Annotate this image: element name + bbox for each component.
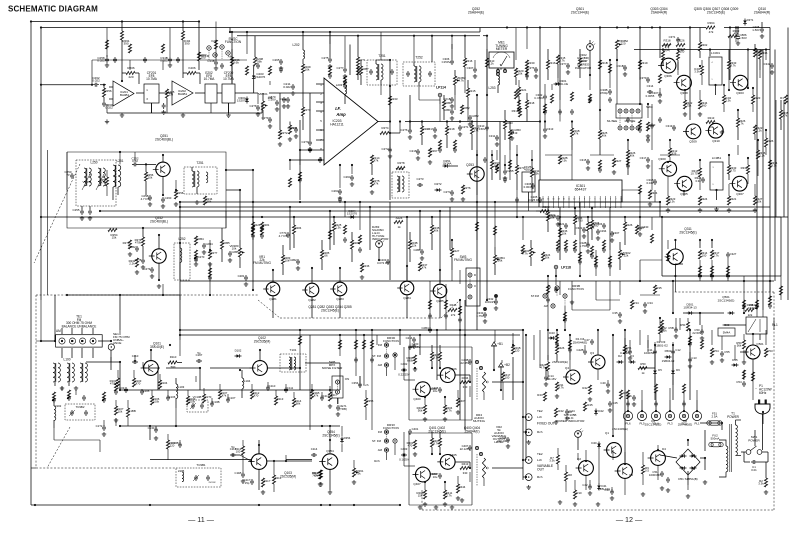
svg-text:220 10kV: 220 10kV xyxy=(497,439,509,443)
svg-text:ON: ON xyxy=(345,377,349,381)
svg-text:2SC1B2: 2SC1B2 xyxy=(208,482,215,484)
svg-text:100k: 100k xyxy=(153,400,160,404)
svg-text:455C1: 455C1 xyxy=(524,168,533,172)
capacitor C106 xyxy=(166,395,170,401)
svg-text:C2?1: C2?1 xyxy=(461,125,468,129)
wire xyxy=(389,202,391,280)
svg-text:Q281: Q281 xyxy=(269,297,277,301)
svg-text:Q310: Q310 xyxy=(712,139,720,143)
capacitor C504 xyxy=(742,381,746,387)
svg-text:15k: 15k xyxy=(418,494,423,498)
svg-text:4.7k: 4.7k xyxy=(730,64,736,68)
svg-text:POWER INDICATOR: POWER INDICATOR xyxy=(556,419,586,423)
svg-text:C44: C44 xyxy=(569,409,575,413)
resistor R117 xyxy=(166,440,169,449)
switch DR3B xyxy=(555,286,559,290)
svg-text:FUNCTION: FUNCTION xyxy=(383,339,399,343)
svg-text:POWER: POWER xyxy=(727,415,740,419)
svg-text:1000/35V: 1000/35V xyxy=(649,473,661,477)
svg-text:PL2: PL2 xyxy=(681,422,686,426)
svg-text:47k: 47k xyxy=(374,182,379,186)
svg-text:50k: 50k xyxy=(545,256,550,260)
resistor R291 xyxy=(430,225,433,234)
svg-text:MUTING: MUTING xyxy=(473,419,486,423)
diode D204 xyxy=(245,99,249,102)
svg-text:FUNCTION: FUNCTION xyxy=(383,426,399,430)
svg-text:C10B: C10B xyxy=(171,441,178,445)
wire xyxy=(40,28,42,301)
capacitor C316 xyxy=(534,67,538,73)
capacitor C108 xyxy=(210,401,214,407)
svg-text:22k: 22k xyxy=(624,254,629,258)
resistor R105 xyxy=(116,378,119,387)
capacitor C51 xyxy=(660,471,664,477)
svg-text:D4: D4 xyxy=(662,447,666,451)
svg-text:R2B7: R2B7 xyxy=(361,67,369,71)
resistor R421 xyxy=(555,345,558,354)
resistor R7 xyxy=(556,455,559,464)
resistor R220 xyxy=(514,68,517,77)
resistor R10 xyxy=(573,490,576,499)
coil L202 xyxy=(303,50,305,59)
capacitor C286 xyxy=(420,249,424,255)
svg-text:C110: C110 xyxy=(269,384,276,388)
capacitor C423 xyxy=(608,401,612,407)
svg-text:S1B01-02: S1B01-02 xyxy=(654,344,668,348)
capacitor C260b xyxy=(194,255,198,261)
resistor R501 xyxy=(742,340,745,349)
svg-text:1: 1 xyxy=(712,79,713,81)
resistor R350 xyxy=(768,160,771,169)
svg-text:0.047: 0.047 xyxy=(646,181,654,185)
svg-text:470: 470 xyxy=(408,444,413,448)
capacitor C222 xyxy=(503,169,507,175)
svg-text:15k: 15k xyxy=(112,236,117,240)
wire xyxy=(105,40,108,49)
capacitor C343 xyxy=(701,177,705,183)
svg-text:Q400: Q400 xyxy=(413,397,421,401)
wire xyxy=(67,152,226,228)
svg-text:INDICATOR: INDICATOR xyxy=(372,237,389,241)
wire xyxy=(98,340,111,342)
svg-text:2SC1345(E): 2SC1345(E) xyxy=(679,231,696,235)
transistor Q400 xyxy=(416,382,431,397)
capacitor C402 xyxy=(401,368,407,372)
svg-text:LP114: LP114 xyxy=(436,86,446,90)
resistor R503 xyxy=(658,325,661,334)
resistor R108 xyxy=(158,380,161,389)
resistor R417 xyxy=(511,345,514,354)
resistor R342 xyxy=(706,120,715,123)
svg-text:1S2076: 1S2076 xyxy=(237,99,247,103)
wire xyxy=(752,359,754,380)
wire xyxy=(559,281,561,295)
wire xyxy=(198,22,200,61)
capacitor C219 xyxy=(416,149,420,155)
IF amplifier IC203 xyxy=(324,78,378,165)
darlington D4b xyxy=(651,451,666,466)
svg-text:R226: R226 xyxy=(677,39,684,43)
svg-text:14: 14 xyxy=(552,199,554,201)
svg-text:4.7k: 4.7k xyxy=(558,386,564,390)
resistor R404 xyxy=(443,405,446,414)
svg-text:Q307: Q307 xyxy=(736,192,744,196)
wire xyxy=(230,31,480,33)
svg-text:C10B: C10B xyxy=(212,400,219,404)
svg-text:RDL.I/E: RDL.I/E xyxy=(558,82,568,86)
resistor R51 xyxy=(623,345,626,354)
svg-text:R426: R426 xyxy=(558,346,565,350)
svg-text:1000/50V: 1000/50V xyxy=(644,351,656,355)
svg-text:75k: 75k xyxy=(687,104,692,108)
svg-text:L104: L104 xyxy=(244,379,251,383)
LED D283 xyxy=(376,241,383,248)
resistor R364 xyxy=(706,26,715,29)
svg-text:500mA: 500mA xyxy=(711,437,720,441)
resistor R261 xyxy=(120,31,123,40)
capacitor C424 xyxy=(632,395,636,401)
svg-text:C294: C294 xyxy=(600,229,607,233)
ground xyxy=(418,505,422,509)
svg-text:Lch: Lch xyxy=(537,458,542,462)
capacitor C118 xyxy=(241,472,245,478)
svg-text:10: 10 xyxy=(573,199,575,201)
svg-text:PL1: PL1 xyxy=(694,422,699,426)
svg-text:R40?: R40? xyxy=(459,399,466,403)
resistor R233 xyxy=(278,130,281,139)
svg-text:R54: R54 xyxy=(713,349,719,353)
resistor R345 xyxy=(764,138,767,147)
resistor R230 xyxy=(461,185,464,194)
svg-text:R2B5: R2B5 xyxy=(222,241,230,245)
wire xyxy=(405,121,540,123)
resistor R256b xyxy=(128,240,131,249)
svg-text:3.3k: 3.3k xyxy=(549,459,555,463)
resistor R354 xyxy=(727,196,730,205)
svg-text:R35: R35 xyxy=(656,286,662,290)
resistor R403 xyxy=(423,405,426,414)
svg-text:C313: C313 xyxy=(547,127,554,131)
capacitor C282 xyxy=(296,259,300,265)
svg-text:C214: C214 xyxy=(406,336,413,340)
svg-text:Q308: Q308 xyxy=(680,91,688,95)
resistor R332 xyxy=(700,66,703,75)
potentiometer VR280 xyxy=(238,248,241,257)
capacitor C230 xyxy=(268,117,272,123)
svg-text:AM: AM xyxy=(378,448,383,452)
resistor R288 xyxy=(360,263,363,272)
svg-text:5: 5 xyxy=(600,199,601,201)
capacitor C107 xyxy=(196,359,202,363)
ground xyxy=(195,200,199,204)
transistor Q306 xyxy=(661,58,676,73)
resistor R407 xyxy=(430,438,433,447)
svg-text:L252: L252 xyxy=(179,237,186,241)
svg-text:C2B6: C2B6 xyxy=(413,248,421,252)
svg-text:10k: 10k xyxy=(518,72,523,76)
LED D8 xyxy=(575,431,582,438)
capacitor C11a xyxy=(653,349,657,355)
svg-text:L203: L203 xyxy=(336,83,343,87)
resistor R232 xyxy=(356,57,359,66)
svg-text:C54: C54 xyxy=(736,380,742,384)
capacitor C344 xyxy=(676,37,680,43)
svg-text:D40: D40 xyxy=(591,441,597,445)
svg-text:C2?3: C2?3 xyxy=(416,177,423,181)
switch SW2C xyxy=(207,46,211,50)
svg-text:R302: R302 xyxy=(701,43,708,47)
svg-text:100-16V: 100-16V xyxy=(546,377,557,381)
svg-text:Rch: Rch xyxy=(374,459,380,463)
capacitor C309 xyxy=(586,159,590,165)
capacitor C266 xyxy=(168,57,172,63)
node LP118 xyxy=(554,265,558,269)
svg-text:R267: R267 xyxy=(430,149,437,153)
capacitor C886 xyxy=(736,35,740,41)
svg-text:C263: C263 xyxy=(331,189,338,193)
svg-text:ST.FM: ST.FM xyxy=(201,54,210,58)
resistor R349 xyxy=(756,150,759,159)
potentiometer VR284 xyxy=(493,255,496,264)
svg-text:0.022: 0.022 xyxy=(105,106,113,110)
resistor R295 xyxy=(586,222,589,231)
svg-text:9: 9 xyxy=(713,184,714,186)
resistor R109 xyxy=(186,396,189,405)
capacitor C408b xyxy=(506,437,510,443)
svg-text:C105: C105 xyxy=(143,389,150,393)
svg-text:10.75V: 10.75V xyxy=(690,172,699,176)
svg-text:1S2076: 1S2076 xyxy=(347,211,357,215)
svg-text:Q3: Q3 xyxy=(590,351,594,355)
svg-text:0.022: 0.022 xyxy=(92,79,100,83)
svg-text:0.025 DS: 0.025 DS xyxy=(528,198,540,202)
svg-text:R2?8: R2?8 xyxy=(397,161,404,165)
svg-text:3.3k: 3.3k xyxy=(669,200,675,204)
svg-text:FM: FM xyxy=(378,430,383,434)
capacitor C282b xyxy=(468,115,472,121)
svg-text:R221: R221 xyxy=(519,88,526,92)
capacitor C502 xyxy=(674,327,678,333)
svg-text:2: 2 xyxy=(615,199,616,201)
wire xyxy=(100,84,106,86)
capacitor C109 xyxy=(226,397,230,403)
svg-text:5p: 5p xyxy=(197,351,201,355)
svg-text:1-50V: 1-50V xyxy=(752,28,760,32)
svg-text:RL1: RL1 xyxy=(772,323,778,327)
svg-text:2SC1345(E): 2SC1345(E) xyxy=(322,434,339,438)
capacitor C258 xyxy=(105,57,109,63)
transistor Q303 xyxy=(733,75,748,90)
svg-text:4.6k: 4.6k xyxy=(233,61,239,65)
resistor R306 xyxy=(646,122,649,131)
svg-text:1.750: 1.750 xyxy=(575,219,583,223)
svg-text:C2?9: C2?9 xyxy=(261,116,268,120)
svg-text:47k: 47k xyxy=(314,474,319,478)
resistor R11 xyxy=(555,382,558,391)
capacitor CE71 xyxy=(336,405,340,411)
svg-text:POWER: POWER xyxy=(748,439,760,443)
svg-text:9700p: 9700p xyxy=(600,91,608,95)
svg-text:C13: C13 xyxy=(691,356,697,360)
resistor R323 xyxy=(541,252,544,261)
svg-text:C317: C317 xyxy=(640,156,647,160)
svg-text:C2?7: C2?7 xyxy=(336,66,343,70)
jack TE2 fixed xyxy=(525,414,532,421)
svg-text:ST. FM: ST. FM xyxy=(372,439,382,443)
resistor R281 xyxy=(251,222,254,231)
transformer T101 xyxy=(280,354,306,372)
capacitor C229 xyxy=(256,105,260,111)
capacitor C14 xyxy=(544,375,548,381)
resistor R308 xyxy=(570,128,573,137)
capacitor C318 xyxy=(623,65,627,71)
LED D302 xyxy=(587,44,594,51)
resistor R305 xyxy=(518,108,521,117)
svg-text:15p: 15p xyxy=(245,481,250,485)
wire xyxy=(634,49,770,51)
wire xyxy=(226,169,253,171)
svg-text:R258: R258 xyxy=(177,191,184,195)
svg-text:C31B: C31B xyxy=(616,64,623,68)
resistor R8 xyxy=(564,472,567,481)
svg-text:3SK40(E): 3SK40(E) xyxy=(150,345,164,349)
svg-text:C2B3: C2B3 xyxy=(513,128,521,132)
svg-text:40k: 40k xyxy=(602,134,607,138)
svg-text:C5B: C5B xyxy=(668,326,674,330)
wire xyxy=(121,20,123,22)
capacitor C328 xyxy=(653,179,657,185)
resistor R400 xyxy=(413,355,416,364)
capacitor C501 xyxy=(700,329,704,335)
capacitor C253 xyxy=(148,195,152,201)
svg-text:VC251: VC251 xyxy=(83,180,92,184)
resistor R101 xyxy=(114,406,117,415)
svg-text:C2?2: C2?2 xyxy=(381,147,388,151)
svg-text:R104: R104 xyxy=(161,381,168,385)
svg-text:C130: C130 xyxy=(148,426,155,430)
resistor R324 xyxy=(648,190,651,199)
ground xyxy=(460,498,464,502)
capacitor C11b xyxy=(671,349,675,355)
svg-text:27k: 27k xyxy=(451,313,456,317)
svg-text:2.2k: 2.2k xyxy=(756,129,762,133)
transformer T252 xyxy=(403,62,435,86)
svg-text:SCHEMATIC DIAGRAM: SCHEMATIC DIAGRAM xyxy=(8,5,98,14)
wire xyxy=(651,104,653,150)
svg-text:6: 6 xyxy=(595,199,596,201)
svg-text:TE2: TE2 xyxy=(537,409,543,413)
wire xyxy=(459,300,461,420)
potentiometer VR202 xyxy=(453,76,456,85)
svg-text:R202: R202 xyxy=(542,205,549,209)
capacitor C330 xyxy=(494,299,498,305)
resistor R409 xyxy=(423,490,426,499)
svg-text:D3: D3 xyxy=(630,354,634,358)
svg-text:68k: 68k xyxy=(296,402,301,406)
resistor R114 xyxy=(292,398,295,407)
wire xyxy=(136,92,144,94)
svg-text:C2B5: C2B5 xyxy=(231,250,239,254)
svg-text:FUNCTION: FUNCTION xyxy=(568,287,584,291)
svg-text:100: 100 xyxy=(702,254,707,258)
svg-text:NOISE FILTER: NOISE FILTER xyxy=(322,366,343,370)
resistor R113 xyxy=(274,396,277,405)
svg-text:LP118: LP118 xyxy=(561,266,571,270)
svg-text:R364: R364 xyxy=(707,21,714,25)
wire xyxy=(35,504,400,506)
capacitor C325 xyxy=(610,231,614,237)
resistor R213 xyxy=(388,96,391,105)
svg-text:D502: D502 xyxy=(665,349,672,353)
capacitor C104 xyxy=(124,387,128,393)
resistor R351 xyxy=(746,165,749,174)
capacitor C231 xyxy=(294,127,298,133)
svg-text:2.2k: 2.2k xyxy=(129,262,135,266)
svg-text:4: 4 xyxy=(712,62,713,64)
svg-text:R213: R213 xyxy=(708,116,715,120)
transistor Q405 xyxy=(440,455,455,470)
svg-text:Q253: Q253 xyxy=(466,163,474,167)
filter LC301 xyxy=(709,57,722,85)
node +B1 xyxy=(492,342,497,346)
svg-text:L202: L202 xyxy=(293,43,300,47)
wire xyxy=(409,432,472,434)
svg-text:R326: R326 xyxy=(767,139,774,143)
wire xyxy=(492,381,523,383)
resistor R319c xyxy=(638,60,641,69)
svg-text:VC10B: VC10B xyxy=(193,395,202,399)
svg-text:470: 470 xyxy=(136,382,141,386)
capacitor C320 xyxy=(531,183,535,189)
capacitor C1 xyxy=(751,460,757,464)
resistor A205 xyxy=(165,89,168,98)
wire xyxy=(675,263,683,265)
wire xyxy=(378,121,390,123)
transistor Q102 xyxy=(253,361,268,376)
svg-text:Lch: Lch xyxy=(364,383,369,387)
svg-text:L103: L103 xyxy=(178,385,185,389)
wire xyxy=(329,440,331,453)
diode D3 xyxy=(631,360,634,364)
resistor R266 xyxy=(187,71,196,74)
svg-text:C315: C315 xyxy=(580,158,587,162)
svg-text:R31B: R31B xyxy=(600,61,607,65)
svg-text:22k: 22k xyxy=(748,313,753,317)
svg-text:Q309: Q309 xyxy=(689,140,697,144)
svg-text:R215: R215 xyxy=(468,89,475,93)
resistor R427 xyxy=(583,402,586,411)
svg-text:Q306: Q306 xyxy=(664,74,672,78)
svg-text:1.3k: 1.3k xyxy=(335,226,341,230)
resistor R106 xyxy=(132,378,135,387)
capacitor C346 xyxy=(726,252,730,258)
svg-text:C46: C46 xyxy=(626,394,632,398)
svg-text:Q407: Q407 xyxy=(413,482,421,486)
svg-text:10u: 10u xyxy=(433,389,438,393)
resistor R234 xyxy=(301,107,304,116)
svg-text:R236: R236 xyxy=(363,264,370,268)
ground xyxy=(714,207,718,211)
meter ME1 xyxy=(489,52,514,68)
resistor R320 xyxy=(546,212,549,221)
resistor R253 xyxy=(174,190,177,199)
transistor Q253 xyxy=(470,167,484,181)
resistor R435 xyxy=(460,466,469,469)
capacitor C344b xyxy=(618,312,622,318)
transistor Q308 xyxy=(677,75,692,90)
svg-text:R332: R332 xyxy=(741,166,748,170)
capacitor C280 xyxy=(450,109,454,115)
